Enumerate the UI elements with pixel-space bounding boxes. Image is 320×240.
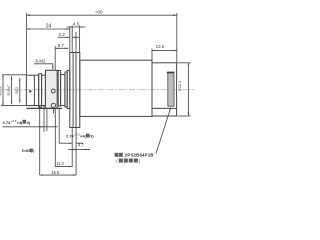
svg-text:×4(: ×4( — [17, 120, 24, 125]
svg-text:15.5: 15.5 — [51, 170, 60, 175]
svg-text:6-M2: 6-M2 — [35, 59, 46, 64]
svg-text:Φ13: Φ13 — [15, 87, 19, 94]
svg-text:13.5: 13.5 — [156, 44, 165, 49]
svg-text:~60: ~60 — [95, 10, 103, 15]
svg-text:Φ22.3: Φ22.3 — [178, 81, 182, 91]
svg-text:11.2: 11.2 — [56, 161, 65, 166]
svg-text:Φ18h7: Φ18h7 — [7, 85, 11, 96]
svg-text:2.2: 2.2 — [59, 32, 66, 37]
svg-text:4.7: 4.7 — [78, 142, 84, 147]
svg-text:4.5: 4.5 — [73, 22, 80, 27]
svg-text:8.7: 8.7 — [58, 43, 65, 48]
svg-text:×4(: ×4( — [80, 134, 87, 139]
svg-text:2PS2B64P1B: 2PS2B64P1B — [125, 153, 154, 158]
svg-text:2.74: 2.74 — [66, 134, 75, 139]
svg-text:Φ20h7: Φ20h7 — [0, 85, 2, 96]
svg-text:3.74: 3.74 — [3, 120, 12, 125]
svg-text:): ) — [33, 149, 34, 153]
svg-text:24: 24 — [46, 24, 52, 30]
